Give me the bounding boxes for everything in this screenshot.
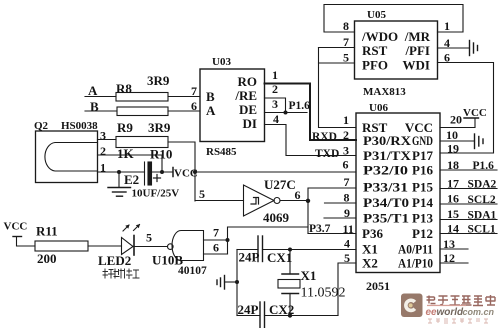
- wire pin14 SCL1: [440, 233, 497, 235]
- svg-text:R9: R9: [117, 120, 133, 135]
- svg-text:6: 6: [295, 188, 301, 202]
- wire U10B pin6: [204, 253, 228, 255]
- earth ground (E2): [108, 172, 131, 196]
- svg-text:A0/P11: A0/P11: [398, 242, 433, 257]
- svg-text:P33/31: P33/31: [363, 180, 408, 195]
- svg-text:P13: P13: [412, 211, 433, 226]
- svg-text:P34/T0: P34/T0: [363, 195, 409, 210]
- wire /PFI to ground: [438, 47, 470, 49]
- ground (U06 pin10): [475, 134, 484, 149]
- svg-text:P31/TX: P31/TX: [363, 148, 412, 163]
- svg-text:VCC: VCC: [463, 107, 487, 119]
- svg-text:U06: U06: [369, 102, 388, 114]
- svg-text:B: B: [206, 89, 215, 104]
- ground (crystal): [217, 276, 225, 290]
- bottom rail continued: [265, 315, 339, 317]
- svg-text:24P: 24P: [238, 302, 259, 317]
- wire to P33 pin7: [308, 188, 356, 234]
- svg-text:1K: 1K: [117, 146, 135, 161]
- wire R11 to LED2: [88, 245, 122, 247]
- wire U10B pin7: [204, 239, 228, 241]
- watermark red underline: [427, 305, 466, 306]
- svg-text:X2: X2: [362, 256, 378, 271]
- junction dot /RE-DE: [284, 111, 288, 115]
- VCC bar (U06 pin20): [464, 117, 479, 119]
- svg-text:U27C: U27C: [264, 177, 296, 192]
- svg-text:RO: RO: [238, 74, 258, 89]
- svg-text:/RE: /RE: [234, 88, 257, 103]
- svg-text:DI: DI: [243, 116, 257, 131]
- svg-text:R10: R10: [150, 147, 172, 162]
- watermark logo eeworld: [401, 294, 495, 324]
- resistor R8: [116, 93, 168, 102]
- svg-text:3R9: 3R9: [148, 120, 171, 135]
- wire B input: [85, 110, 117, 112]
- inverter U27C 4069: [244, 185, 275, 216]
- svg-text:1: 1: [444, 19, 450, 33]
- wire RST vertical to U06: [319, 48, 357, 128]
- wire Q2 pin1 to E2: [98, 171, 145, 173]
- wire R8 to U03 pin7: [168, 96, 200, 98]
- wire inverter input: [195, 200, 244, 202]
- junction dot (inverter out): [306, 199, 310, 203]
- svg-text:Q2: Q2: [34, 120, 49, 132]
- svg-text:P3.7: P3.7: [309, 223, 331, 235]
- svg-text:WDI: WDI: [403, 58, 430, 73]
- svg-text:R11: R11: [36, 224, 58, 239]
- svg-text:SCL2: SCL2: [468, 194, 496, 206]
- svg-text:10: 10: [446, 128, 458, 142]
- svg-text:U05: U05: [367, 9, 386, 21]
- ground (U05 pin4): [470, 41, 478, 56]
- resistor R10: [116, 137, 168, 148]
- RS485 transceiver U03: [200, 69, 265, 142]
- svg-text:16: 16: [447, 192, 459, 206]
- watchdog U05: [355, 21, 438, 79]
- watermark CJK title (pseudo): [427, 295, 496, 306]
- IR receiver Q2 HS0038: [36, 131, 98, 183]
- svg-text:20: 20: [450, 113, 462, 127]
- wire R9 to U03 pin6: [168, 110, 200, 112]
- svg-text:/WDO: /WDO: [361, 29, 398, 44]
- svg-text:1: 1: [343, 113, 349, 127]
- wire inverter output: [280, 200, 308, 202]
- svg-text:8: 8: [344, 191, 350, 205]
- top rail continued: [263, 249, 357, 251]
- junction dot (U10B pins): [226, 238, 230, 242]
- svg-text:LED2: LED2: [98, 253, 131, 268]
- wire RO to RXD (thick): [265, 84, 357, 141]
- wire pin11 P3.7: [308, 233, 356, 235]
- svg-text:4: 4: [273, 112, 279, 126]
- wire R10 to vertical: [168, 142, 195, 201]
- svg-text:P35/T1: P35/T1: [363, 211, 409, 226]
- svg-text:1: 1: [272, 68, 278, 82]
- svg-text:.com.cn: .com.cn: [460, 307, 495, 317]
- svg-text:E2: E2: [124, 172, 139, 187]
- svg-text:10UF/25V: 10UF/25V: [132, 188, 180, 200]
- svg-text:3: 3: [272, 97, 278, 111]
- resistor R11: [35, 241, 88, 251]
- svg-text:P32/I0: P32/I0: [363, 163, 408, 178]
- wire DE pin3 with P1.6 stub: [265, 112, 308, 114]
- NAND gate U10B 40107: [168, 244, 174, 250]
- svg-text:P1.6: P1.6: [289, 100, 311, 112]
- svg-text:2: 2: [100, 144, 106, 158]
- wire LED2 to U10B: [134, 246, 168, 248]
- wire pin8 stub: [325, 202, 357, 204]
- svg-text:ee: ee: [426, 307, 438, 318]
- svg-text:B: B: [90, 99, 99, 114]
- crystal X1: [278, 250, 300, 316]
- wire pin9 stub: [324, 217, 356, 219]
- svg-text:11.0592: 11.0592: [301, 286, 346, 301]
- svg-text:15: 15: [447, 207, 459, 221]
- wire long to P32: [195, 171, 356, 173]
- LED arrow 2: [134, 225, 140, 231]
- svg-text:8: 8: [343, 19, 349, 33]
- wire pin12: [440, 262, 468, 264]
- wire pin10 to ground: [440, 140, 475, 142]
- svg-text:3: 3: [100, 129, 106, 143]
- wire Q2 pin2: [98, 155, 163, 172]
- junction dot (ground E2): [117, 170, 121, 174]
- svg-text:5: 5: [199, 187, 205, 201]
- MCU U06 2051: [356, 113, 440, 273]
- svg-text:7: 7: [343, 35, 349, 49]
- svg-text:40107: 40107: [178, 265, 207, 277]
- svg-text:R8: R8: [116, 81, 132, 96]
- wire U05 RST: [319, 47, 355, 49]
- svg-text:SDA1: SDA1: [468, 210, 497, 222]
- watermark slogan (pseudo CJK tiny): [428, 319, 488, 323]
- svg-text:3R9: 3R9: [147, 73, 170, 88]
- svg-text:P16: P16: [412, 163, 433, 178]
- capacitor CX2: [260, 302, 265, 328]
- svg-text:RST: RST: [362, 43, 388, 58]
- svg-text:7: 7: [191, 84, 197, 98]
- wire A input: [85, 96, 116, 98]
- resistor R9: [117, 107, 168, 116]
- svg-text:A1/P10: A1/P10: [398, 256, 433, 271]
- wire pin17 SDA2: [440, 188, 497, 190]
- LED arrow 1: [123, 225, 129, 231]
- wire pin15 SDA1: [440, 219, 497, 221]
- wire U10B to inverter net: [228, 227, 309, 254]
- svg-text:7: 7: [213, 226, 219, 240]
- label receive-indicator (CJK pseudo): [103, 269, 139, 279]
- svg-text:6: 6: [191, 99, 197, 113]
- svg-text:4: 4: [344, 237, 350, 251]
- svg-text:PFO: PFO: [362, 58, 388, 73]
- svg-text:4069: 4069: [263, 210, 290, 225]
- wire pin20 to VCC: [440, 119, 475, 128]
- wire DI to TXD: [265, 125, 357, 156]
- svg-text:/PFI: /PFI: [404, 43, 430, 58]
- wire Q2 pin3 to R10: [98, 139, 117, 141]
- capacitor E2: [145, 162, 152, 185]
- svg-text:DE: DE: [239, 102, 257, 117]
- svg-text:GND: GND: [412, 133, 433, 148]
- IR lens D-shape: [45, 143, 98, 172]
- svg-text:/MR: /MR: [404, 29, 431, 44]
- junction dot (P32 wire): [193, 170, 197, 174]
- svg-text:X1: X1: [362, 242, 378, 257]
- svg-text:P30/RX: P30/RX: [363, 133, 412, 148]
- svg-text:3: 3: [343, 144, 349, 158]
- svg-text:TXD: TXD: [315, 148, 339, 160]
- capacitor CX1: [258, 236, 263, 262]
- svg-text:P17: P17: [412, 148, 433, 163]
- svg-text:CX1: CX1: [267, 250, 292, 265]
- wire WDI to P17: [438, 63, 494, 154]
- crystal frame left vertical: [236, 250, 238, 316]
- svg-text:SCL1: SCL1: [468, 224, 496, 236]
- plus sign E2: [154, 175, 161, 182]
- wire /WDO to /MR loop: [324, 5, 463, 33]
- wire ground to frame: [225, 281, 238, 283]
- svg-text:5: 5: [146, 231, 152, 245]
- svg-text:19: 19: [447, 142, 459, 156]
- svg-text:200: 200: [37, 251, 57, 266]
- svg-text:6: 6: [213, 241, 219, 255]
- svg-text:A: A: [206, 103, 216, 118]
- svg-text:P15: P15: [412, 180, 433, 195]
- LED LED2: [122, 224, 141, 255]
- svg-text:X1: X1: [301, 268, 317, 283]
- svg-text:SDA2: SDA2: [468, 179, 497, 191]
- svg-text:RS485: RS485: [206, 146, 237, 158]
- svg-text:5: 5: [343, 51, 349, 65]
- junction dot (frame gnd): [235, 280, 239, 284]
- wire X2 pin5: [338, 263, 356, 316]
- wire pin18 P1.6: [440, 169, 497, 171]
- svg-text:24P: 24P: [239, 250, 260, 265]
- svg-text:P1.6: P1.6: [473, 160, 495, 172]
- svg-text:MAX813: MAX813: [363, 86, 406, 98]
- wire pin16 SCL2: [440, 203, 497, 205]
- svg-text:2051: 2051: [366, 279, 390, 293]
- svg-text:U03: U03: [212, 56, 231, 68]
- top rail to X1 pin4: [237, 249, 258, 251]
- junction dot (X1 top): [288, 248, 292, 252]
- wire pin13: [440, 248, 468, 250]
- svg-text:2: 2: [343, 128, 349, 142]
- wire E2 to VCC bar: [152, 171, 174, 173]
- svg-text:P36: P36: [362, 226, 383, 241]
- svg-text:A: A: [88, 83, 98, 98]
- junction dot (X1 bottom): [288, 313, 292, 317]
- VCC bar (E2): [172, 168, 174, 177]
- bottom rail: [237, 315, 260, 317]
- svg-text:P14: P14: [412, 195, 433, 210]
- svg-text:RXD: RXD: [312, 131, 337, 143]
- svg-text:7: 7: [344, 175, 350, 189]
- hysteresis symbol: [251, 198, 259, 205]
- svg-text:6: 6: [343, 158, 349, 172]
- svg-text:P12: P12: [412, 226, 433, 241]
- wire /RE pin2: [265, 98, 286, 113]
- wire U05 PFO: [319, 62, 355, 64]
- junction dot (E2 out): [160, 170, 164, 174]
- svg-text:HS0038: HS0038: [61, 120, 98, 132]
- svg-text:VCC: VCC: [4, 221, 28, 233]
